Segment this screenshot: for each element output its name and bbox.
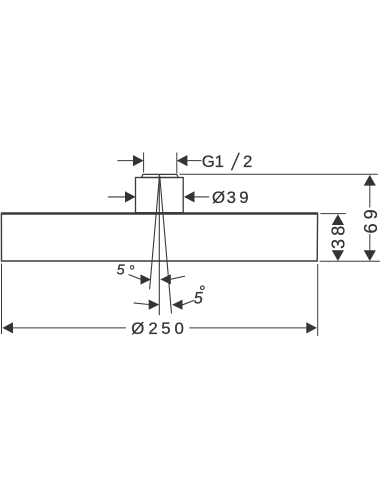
svg-text:1: 1 (215, 152, 224, 171)
svg-text:3: 3 (227, 188, 236, 207)
svg-text:9: 9 (239, 188, 248, 207)
svg-text:5: 5 (117, 262, 126, 278)
svg-text:Ø: Ø (212, 188, 225, 207)
svg-text:G: G (202, 152, 215, 171)
svg-text:2: 2 (243, 152, 252, 171)
svg-text:3: 3 (328, 239, 348, 249)
svg-text:°: ° (199, 283, 206, 301)
svg-text:°: ° (129, 263, 135, 279)
svg-text:5: 5 (161, 319, 170, 338)
svg-text:Ø: Ø (131, 319, 144, 338)
svg-text:6: 6 (361, 223, 381, 233)
svg-text:2: 2 (148, 319, 157, 338)
svg-text:9: 9 (361, 209, 381, 219)
svg-text:0: 0 (175, 319, 184, 338)
svg-text:8: 8 (328, 226, 348, 236)
